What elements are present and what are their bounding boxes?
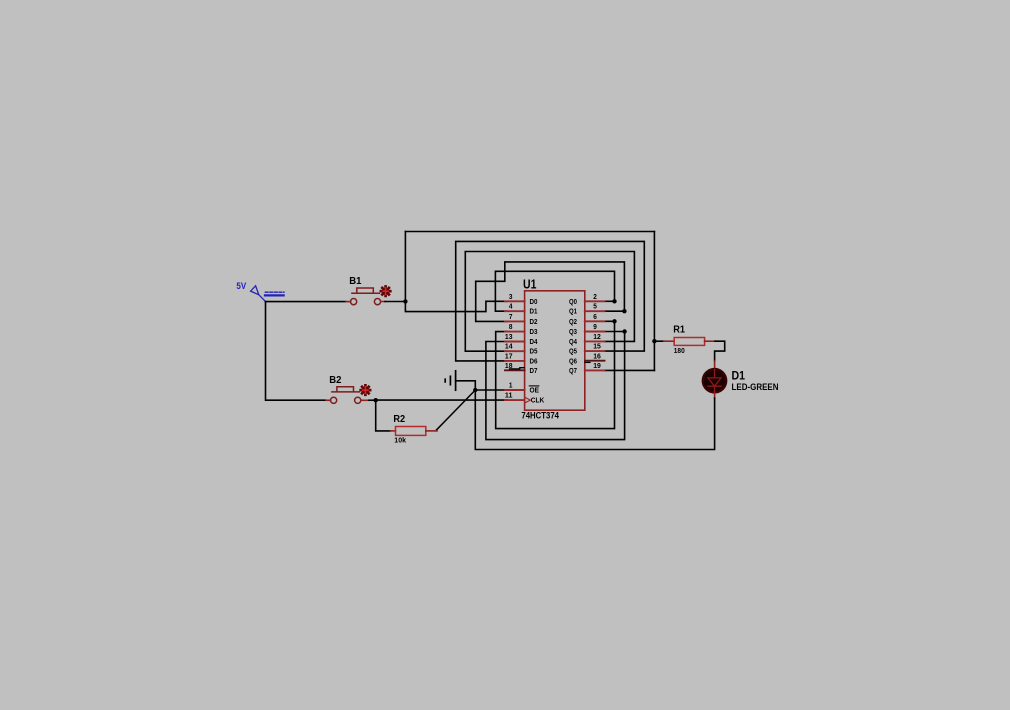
wire red stub into B1 left contact xyxy=(346,301,350,303)
svg-text:D4: D4 xyxy=(530,337,538,346)
wire B2 junction down to R2 xyxy=(376,400,391,431)
power terminal dashed marker xyxy=(265,291,284,293)
svg-text:17: 17 xyxy=(505,351,513,360)
svg-text:18: 18 xyxy=(505,361,513,370)
power terminal arrow symbol xyxy=(251,286,266,302)
wire outer loop top horizontal xyxy=(405,231,654,233)
wire R1 to LED anode xyxy=(715,341,725,361)
wire Q1 pin 5 to dot xyxy=(605,310,625,312)
resistor R2 body xyxy=(396,427,426,436)
svg-text:R2: R2 xyxy=(393,413,405,425)
wire 5V vertical down to B2 row xyxy=(266,302,327,401)
svg-text:8: 8 xyxy=(509,322,513,331)
svg-text:Q7: Q7 xyxy=(569,366,577,375)
wire diagonal OE junction to R2 xyxy=(437,390,476,430)
wire 5V corner to B1 left contact xyxy=(266,301,347,303)
svg-text:1: 1 xyxy=(509,381,513,390)
pin 4 D1 stub xyxy=(505,310,525,312)
pin 18 black mark xyxy=(510,368,525,369)
pin 12 Q4 stub xyxy=(585,340,605,342)
node OE junction dot xyxy=(473,388,477,392)
button B2 interactive star xyxy=(361,385,370,394)
button B1 left contact circle xyxy=(351,299,357,305)
svg-text:19: 19 xyxy=(593,361,601,370)
node B2 junction dot xyxy=(374,398,378,402)
wire Q2 pin 6 to dot xyxy=(605,320,615,322)
svg-text:Q1: Q1 xyxy=(569,307,577,316)
svg-text:R1: R1 xyxy=(673,324,685,336)
wire Q2 loop under chip to D3 pin 8 xyxy=(496,321,615,428)
wire Q7 pin 19 to outer loop xyxy=(605,369,655,371)
svg-text:180: 180 xyxy=(674,346,685,355)
wire Q3 pin 9 to dot xyxy=(605,331,625,333)
resistor R1 left lead xyxy=(664,340,674,342)
node R1 junction dot xyxy=(652,339,656,343)
svg-text:3: 3 xyxy=(509,292,513,301)
wire red LED cathode stub xyxy=(714,392,716,398)
pin 9 Q3 stub xyxy=(585,331,605,333)
resistor R2 right lead xyxy=(426,430,437,432)
svg-text:D1: D1 xyxy=(732,368,746,382)
pin 16 black mark xyxy=(585,361,590,363)
svg-text:B2: B2 xyxy=(329,374,341,386)
svg-text:10k: 10k xyxy=(394,436,406,445)
pin 16 Q6 stub dark unconnected xyxy=(585,360,605,362)
svg-text:D5: D5 xyxy=(530,347,538,356)
button B2 actuator bar xyxy=(332,387,359,392)
wire LED cathode down and to ground net xyxy=(475,390,714,450)
node Q0 dot xyxy=(612,299,616,303)
svg-text:6: 6 xyxy=(593,312,597,321)
pin 11 CLK stub xyxy=(505,399,525,401)
svg-text:D3: D3 xyxy=(530,327,538,336)
svg-text:Q5: Q5 xyxy=(569,347,577,356)
svg-text:14: 14 xyxy=(505,342,513,351)
button B1 interactive star xyxy=(381,287,390,296)
svg-text:U1: U1 xyxy=(523,276,536,291)
wire R1 branch from junction xyxy=(654,340,664,342)
resistor R2 left lead xyxy=(390,430,395,432)
wire Q0 pin 2 to dot xyxy=(605,300,615,302)
pin 1 OE stub xyxy=(505,389,525,391)
wire B2 junction to CLK pin 11 xyxy=(376,399,507,401)
svg-text:Q6: Q6 xyxy=(569,356,577,365)
wire OE junction up to ground xyxy=(456,381,476,390)
pin 11 clock triangle xyxy=(525,397,531,403)
pin 5 Q1 stub xyxy=(585,310,605,312)
pin 2 Q0 stub xyxy=(585,300,605,302)
pin 7 D2 stub xyxy=(505,320,525,322)
svg-text:D6: D6 xyxy=(530,356,538,365)
svg-text:LED-GREEN: LED-GREEN xyxy=(732,382,779,392)
power terminal solid marker xyxy=(265,294,284,296)
wire B1 right contact to junction xyxy=(381,301,385,303)
pin 19 Q7 stub xyxy=(585,369,605,371)
wire outer loop right vertical to pin 19 row xyxy=(653,232,655,371)
svg-text:5V: 5V xyxy=(236,281,246,291)
resistor R1 body xyxy=(674,338,704,346)
svg-text:D7: D7 xyxy=(530,366,538,375)
node Q1 dot xyxy=(622,309,626,313)
node B1 junction dot xyxy=(403,299,407,303)
pin 13 D4 stub xyxy=(505,341,525,343)
button B1 right contact circle xyxy=(374,299,380,305)
pin 3 D0 stub xyxy=(505,300,525,302)
wire B1 junction down-step to pin 3 xyxy=(405,301,507,311)
pin 14 D5 stub xyxy=(505,350,525,352)
svg-text:9: 9 xyxy=(593,322,597,331)
pin 8 D3 stub xyxy=(505,331,525,333)
svg-text:74HCT374: 74HCT374 xyxy=(521,411,559,421)
svg-text:Q4: Q4 xyxy=(569,337,577,346)
svg-text:2: 2 xyxy=(593,292,597,301)
svg-text:11: 11 xyxy=(505,391,513,400)
svg-text:OE: OE xyxy=(530,386,540,395)
wire Q1 loop to D2 pin 7 xyxy=(476,262,625,322)
svg-text:D1: D1 xyxy=(530,307,538,316)
pin 6 Q2 stub xyxy=(585,320,605,322)
wire outer loop up from B1 junction xyxy=(404,232,406,302)
wire Q5 pin 15 loop to D6 pin 17 xyxy=(456,241,645,361)
LED D1 body xyxy=(703,369,726,392)
pin 18 D7 stub dark unconnected xyxy=(505,369,525,371)
svg-text:16: 16 xyxy=(593,351,601,360)
resistor R1 right lead xyxy=(705,340,715,342)
wire Q4 pin 12 loop to D5 pin 14 xyxy=(465,252,634,352)
svg-text:Q2: Q2 xyxy=(569,317,577,326)
node Q3 dot xyxy=(622,329,626,333)
svg-text:B1: B1 xyxy=(349,275,361,287)
pin 15 Q5 stub xyxy=(585,350,605,352)
svg-text:12: 12 xyxy=(593,332,601,341)
svg-text:7: 7 xyxy=(509,312,513,321)
ground symbol xyxy=(445,371,455,390)
svg-text:D2: D2 xyxy=(530,317,538,326)
svg-text:5: 5 xyxy=(593,302,597,311)
svg-text:15: 15 xyxy=(593,342,601,351)
button B2 right contact circle xyxy=(355,397,361,403)
svg-text:CLK: CLK xyxy=(531,396,545,405)
IC U1 body outline xyxy=(525,291,585,410)
svg-text:Q3: Q3 xyxy=(569,327,577,336)
wire Q0 loop to D1 pin 4 xyxy=(495,271,614,311)
svg-text:D0: D0 xyxy=(530,297,538,306)
wire red stub into B2 left contact xyxy=(326,399,330,401)
svg-text:Q0: Q0 xyxy=(569,297,577,306)
wire red LED anode stub xyxy=(714,361,716,369)
button B2 left contact circle xyxy=(331,397,337,403)
pin 17 D6 stub xyxy=(505,360,525,362)
wire OE junction to pin 1 xyxy=(475,389,507,391)
wire Q3 loop under chip to D4 pin 13 xyxy=(486,332,625,440)
wire B2 right contact red stub xyxy=(361,399,369,401)
wire B2 right contact to junction xyxy=(369,399,376,401)
node Q2 dot xyxy=(612,319,616,323)
button B1 actuator bar xyxy=(352,288,379,293)
svg-text:13: 13 xyxy=(505,332,513,341)
